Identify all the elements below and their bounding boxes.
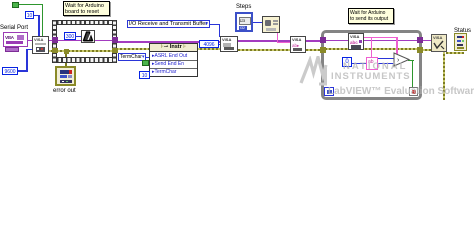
wire: 300 to wait <box>75 36 82 38</box>
control: VISA resource name "Serial Port" <box>3 32 28 47</box>
watermark: LabVIEW Evaluation Software <box>328 86 474 97</box>
label: Wait for Arduino board to reset <box>63 1 110 16</box>
wire <box>222 49 322 51</box>
wire: error olive inside frame <box>56 50 113 52</box>
wire <box>38 15 40 37</box>
wire: purple frame to loop <box>116 41 222 43</box>
wire: blue from ring to buffer node <box>210 24 220 26</box>
wire <box>42 4 43 37</box>
node: VISA Set I/O Buffer Size <box>220 36 238 52</box>
wire: pink string from VISA Read <box>363 37 398 39</box>
wire: error olive loop to VISA Close <box>421 49 432 51</box>
tunnel: loop olive right <box>417 47 423 53</box>
constant: 9600 baud rate <box>2 67 18 75</box>
tunnel: purple right <box>112 37 118 43</box>
wire <box>396 37 398 56</box>
wire: pink string from format node <box>277 32 279 43</box>
tunnel: purple left <box>52 37 58 43</box>
structure: flat sequence frame border bottom <box>52 57 117 63</box>
node: property node Instr <box>149 43 198 77</box>
tunnel: loop purple left <box>320 37 326 43</box>
terminal: loop iteration i <box>324 87 334 96</box>
wire: error branch down to error out indicator <box>65 51 67 66</box>
wire: purple inside loop <box>325 40 419 42</box>
watermark: NI eagle logo <box>299 56 329 86</box>
terminal: loop condition stop <box>409 87 418 96</box>
constant: 10 for TermChar <box>139 71 150 79</box>
wire: purple VISA resource to frame <box>27 40 53 42</box>
node: VISA Close <box>431 34 447 52</box>
node: VISA Configure Serial Port <box>32 36 49 54</box>
wire: green boolean comparator to loop condition <box>408 60 414 61</box>
node: greater than comparator <box>393 52 411 67</box>
wire: blue Steps to format node <box>252 22 263 24</box>
control: Steps numeric <box>235 12 253 32</box>
wire: blue 4096 stub <box>216 44 221 46</box>
wire: blue from 10 constant <box>33 15 40 17</box>
tunnel: olive right <box>112 48 118 54</box>
tunnel: loop purple right <box>417 37 423 43</box>
constant: ring I/O Receive and Transmit Buffer <box>127 20 210 28</box>
wire: error cluster olive from configure node <box>47 50 53 52</box>
structure: while loop border <box>321 30 422 100</box>
wire: blue string length to comparator <box>378 58 396 60</box>
node: VISA Read <box>348 33 364 50</box>
wire <box>219 24 221 37</box>
wire <box>222 40 322 42</box>
constant: 4096 buffer size <box>199 40 219 48</box>
indicator: Status cluster <box>454 33 467 51</box>
indicator: error out cluster <box>55 66 76 86</box>
node: number to string format <box>262 16 280 33</box>
structure: flat sequence frame border left <box>52 20 57 63</box>
constant: 10 (termination char) <box>25 11 34 19</box>
label: Wait for Arduino to send its output <box>348 8 394 24</box>
node: string length (pink) <box>366 57 378 70</box>
junction: error wire <box>64 49 69 54</box>
constant: 0 <box>342 57 352 67</box>
wire <box>26 49 33 51</box>
structure: flat sequence frame border top <box>52 20 117 25</box>
label: Serial Port <box>0 25 28 32</box>
wire <box>26 49 28 72</box>
wire: error olive frame to loop <box>116 48 222 50</box>
tunnel: loop olive left <box>320 47 326 53</box>
control: VISA dropdown part <box>5 47 19 52</box>
wire <box>371 37 373 58</box>
wire: blue TermChar ring stub <box>145 57 151 59</box>
constant: 300 ms <box>64 32 76 40</box>
constant: boolean TRUE (green) <box>12 2 19 8</box>
label: Status <box>454 28 471 35</box>
wire: blue 0 to comparator <box>352 63 396 65</box>
wire: purple loop to VISA Close <box>421 40 432 42</box>
watermark: NATIONAL INSTRUMENTS <box>343 62 407 72</box>
tunnel: olive left <box>52 48 58 54</box>
wire: blue 9600 to configure <box>18 70 27 72</box>
wire: purple stub into property node <box>156 41 158 45</box>
label: error out <box>53 88 76 95</box>
constant: boolean (green) for Send End En <box>142 60 149 66</box>
wire: purple inside sequence frame <box>56 40 113 42</box>
wire: error olive down from VISA Close <box>443 52 445 100</box>
structure: flat sequence frame border right <box>112 20 117 63</box>
label: Steps <box>236 4 251 11</box>
wire: error olive inside loop <box>325 48 419 50</box>
node: Wait (ms) metronome <box>81 30 95 43</box>
wire <box>277 42 291 44</box>
wire: error olive from VISA Close to Status <box>446 52 464 54</box>
constant: ring TermChar <box>118 53 146 61</box>
wire: green constant stub <box>148 63 151 65</box>
wire <box>412 60 413 87</box>
wire: green boolean from TRUE constant <box>18 4 43 5</box>
node: VISA Write <box>290 36 306 53</box>
